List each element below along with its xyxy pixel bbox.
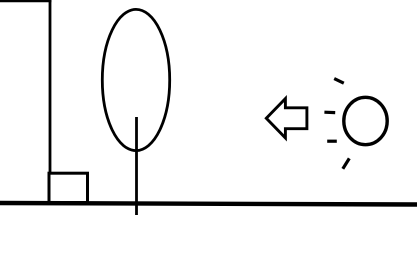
- sun circle: [344, 97, 387, 144]
- wall right edge: [49, 0, 52, 174]
- tree trunk: [135, 117, 138, 215]
- block arrow pointing left: [266, 99, 307, 138]
- sun ray upper horizontal: [324, 111, 335, 115]
- sun ray lower horizontal: [327, 140, 337, 143]
- wall top edge: [0, 0, 52, 2]
- ground line: [0, 203, 417, 205]
- tree crown ellipse: [102, 9, 169, 150]
- sun ray lower diagonal: [343, 158, 350, 168]
- sun ray upper diagonal: [334, 79, 344, 84]
- box on ground: [49, 173, 88, 202]
